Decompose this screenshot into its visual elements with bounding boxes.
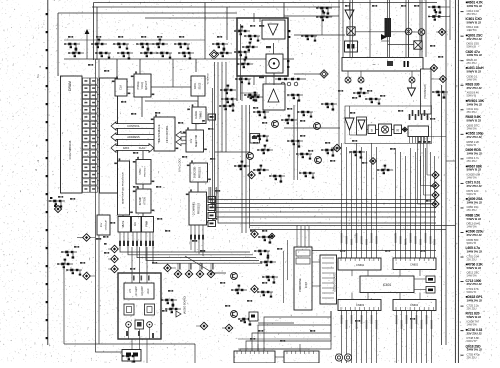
cluster below Q305 <box>231 285 247 295</box>
cluster mid extra 7 <box>287 94 303 102</box>
wires below bottom connectors with labels <box>341 311 432 364</box>
IC phase frequency detector <box>134 74 151 97</box>
mixer circle below clock box 3 <box>409 71 415 83</box>
pin box DO1 <box>208 197 216 203</box>
IC data slicer block <box>191 76 205 96</box>
connector diamond below DRAM <box>54 205 61 212</box>
RF amp outer frame <box>118 273 161 339</box>
wire module internal vertical <box>273 43 276 85</box>
bus channel box <box>100 78 118 193</box>
wire mid horizontal y152 <box>215 151 250 153</box>
connector diamond small <box>269 233 275 239</box>
transistor Q210 <box>247 153 254 160</box>
cluster left of module a <box>220 85 236 95</box>
mixer circle below clock box 2 <box>358 71 364 83</box>
pin labels below DAC blocks <box>119 232 154 246</box>
wires RF bottom pins <box>129 328 150 364</box>
RC filter cluster top row 5 <box>152 39 172 59</box>
pin box top right of clock block <box>208 114 216 120</box>
wire strip area vertical 2 <box>287 240 289 280</box>
connector diamond output row 1 <box>427 171 439 178</box>
cluster near Q301 b <box>281 115 297 125</box>
component chain below module <box>275 78 306 86</box>
PLL box R <box>394 125 402 134</box>
RC filter cluster top row 1 <box>64 43 84 58</box>
schematic right border line B <box>445 0 447 345</box>
wire x140 rail to PFD <box>139 59 141 74</box>
wire x196 rail to data slicer <box>195 59 197 72</box>
connector diamond output row 2 <box>421 182 440 189</box>
wire bottom center links <box>238 339 330 357</box>
mixer box X top left <box>347 27 355 35</box>
PLL small diamond <box>402 127 407 132</box>
cluster bottom far left 3 <box>66 269 82 276</box>
cluster below Q210 <box>234 161 250 171</box>
cluster mid 2 <box>296 153 312 160</box>
resistor cluster module 2 <box>244 35 260 42</box>
wire top y16 module to clock section <box>284 15 339 17</box>
resistor cluster module 4 <box>242 42 258 52</box>
connector diamond right of module <box>320 70 328 78</box>
connector diamond output row 4 <box>418 200 440 207</box>
ruler annotation text <box>34 65 41 171</box>
module left rail <box>240 24 242 100</box>
connector diamond BL1 <box>83 234 95 242</box>
small box bottom left of strip <box>249 312 258 321</box>
wire top rail y38 <box>64 39 205 41</box>
cluster below PLL 1 <box>349 151 365 159</box>
connector diamond RF topright <box>164 264 176 272</box>
cluster left of strip 2 <box>260 257 276 267</box>
pin labels below RF <box>126 331 154 338</box>
RC filter cluster top row 4 <box>136 43 156 58</box>
cluster left of strip 2c <box>262 276 278 284</box>
cluster mid extra 4 <box>269 175 285 183</box>
bus lines center to right <box>209 62 436 223</box>
bus arrow ADDRESS <box>111 133 154 141</box>
box bottom center 1 <box>234 351 275 363</box>
wire PFD bottom to clock timing <box>145 101 198 107</box>
wires Q channel pins down <box>191 239 203 256</box>
cluster left of module c <box>219 105 235 112</box>
pin box DO4 <box>208 221 216 227</box>
connector diamond CN top center <box>209 50 218 59</box>
vertical wires into clock section <box>339 0 426 57</box>
pin labels below PLL box <box>418 141 431 143</box>
wire J1 to IC <box>352 270 420 277</box>
wire rail drop x173 <box>172 59 174 87</box>
cluster left of module b <box>221 98 237 106</box>
IC CLA block <box>115 79 127 96</box>
wire top rail y59 <box>64 58 294 60</box>
IC adaptive flag processor <box>118 161 130 215</box>
pin labels above RF <box>133 276 150 281</box>
vertical label to servo <box>208 73 210 85</box>
mixer box X right <box>414 41 422 49</box>
wire top bus line 1 <box>94 2 438 4</box>
cluster mid extra 1 <box>253 135 269 142</box>
wire data slicer down <box>197 96 199 107</box>
bus arrow DATA FLAG <box>111 144 154 153</box>
mixer circle below clock box 1 <box>345 71 351 83</box>
IC sync protector <box>136 160 151 185</box>
label pair mute <box>103 236 108 245</box>
pin name labels above connectors <box>341 233 435 245</box>
cluster mid extra 5 <box>299 172 315 179</box>
IC clock timing block <box>192 107 206 124</box>
box bottom center 2 <box>284 351 319 363</box>
wire long vertical x99 <box>98 59 100 344</box>
wire mid vertical x294 <box>294 100 298 180</box>
transistor Q304 <box>315 157 322 164</box>
pin box DO3 <box>208 213 216 219</box>
cluster right border <box>432 91 448 99</box>
connector diamond mid center <box>248 171 256 179</box>
servo module frame <box>237 18 288 76</box>
PLL mixer circle in box <box>379 124 392 136</box>
cluster right of module row2 <box>316 12 332 22</box>
regulator box 1 <box>124 304 134 315</box>
parts list text column <box>461 1 485 360</box>
wire DRAM to bus stubs <box>97 80 99 188</box>
transistor Q306 <box>231 311 238 318</box>
wire diagonal to audio board <box>185 256 226 273</box>
connector diamond left bus 1 <box>251 230 259 238</box>
terminal circle RF 1 <box>126 322 132 328</box>
wire strip area vertical 1 <box>283 251 285 303</box>
display interface box right <box>421 69 432 114</box>
cluster right of RF 1 <box>161 299 177 307</box>
wire subcode to Q channel <box>197 182 199 192</box>
regulator small box mid <box>250 134 260 144</box>
wire left cluster links <box>62 238 83 253</box>
IC PLL output box <box>408 126 429 137</box>
resistor cluster module 5 <box>235 78 251 85</box>
connector diamond output row 3 <box>424 191 440 198</box>
IC servo driver strip <box>294 247 312 310</box>
IC CLV selector <box>186 130 204 152</box>
cluster top far right 2 <box>428 11 444 21</box>
module inner wire 2 <box>241 92 259 94</box>
staircase wires to connector J3 <box>240 311 331 351</box>
connector diamond top right border <box>436 28 446 35</box>
bus verticals to connector J2 <box>396 148 435 258</box>
cluster left of strip 1 <box>258 236 274 244</box>
cluster below PLL 2 <box>377 165 393 175</box>
wire bus vertical x226 <box>225 62 227 152</box>
small box right of IC 1 <box>426 276 435 283</box>
wire sync block verticals <box>123 151 143 217</box>
cluster near Q302 <box>297 111 313 118</box>
cluster near Q301 <box>253 111 269 119</box>
terminal circle RF 2 <box>147 322 153 328</box>
IC oscillator <box>97 215 110 235</box>
cluster top far right 1 <box>428 6 444 14</box>
transistor Q302 <box>314 123 321 130</box>
wire top bus line 4 <box>145 17 237 19</box>
wire PLL chain links <box>350 130 409 136</box>
inverter triangle top <box>345 3 354 19</box>
wire stub to right border 2 <box>444 16 450 18</box>
small box right of IC 2 <box>426 287 435 294</box>
wire bottom mid y323 <box>258 322 294 324</box>
IC DA interface <box>132 217 142 233</box>
connector diamond right border mid1 <box>431 75 447 82</box>
PLL opamp triangle 1 <box>345 106 354 130</box>
connector J4 bottom <box>393 300 436 311</box>
schematic right border line A <box>441 85 443 345</box>
diamond row below bus <box>174 263 215 278</box>
cluster right of module row1 <box>316 7 332 15</box>
IC subcode processor <box>190 163 208 182</box>
wire PFD down <box>141 97 143 117</box>
IC PWM output <box>142 217 154 233</box>
wire bus vertical x222 <box>221 62 223 152</box>
IC clock generator long box <box>342 58 423 72</box>
PLL output pins and labels <box>409 110 429 143</box>
connector diamond RF topleft 1 <box>108 255 118 263</box>
double circle terminal 2 <box>344 354 351 361</box>
cluster below clock box 2 <box>365 98 381 105</box>
op-amp U202 box <box>263 84 285 110</box>
left border ruler with ticks <box>46 0 48 345</box>
pin box DO2 <box>208 205 216 211</box>
wire bottom drop x195 <box>194 344 196 363</box>
wire long vertical x95 <box>96 59 123 352</box>
label blob module <box>259 46 271 78</box>
bus line upper y229 <box>250 229 446 231</box>
frame separator line 2 <box>457 0 459 363</box>
mixer box RF <box>135 320 144 329</box>
connector diamond audio out <box>196 322 208 330</box>
spindle motor box <box>266 54 283 73</box>
connector diamond BL3 <box>83 272 95 280</box>
wire vertical x284 module corner <box>283 3 285 19</box>
connector J3 bottom <box>338 300 381 311</box>
capacitor C209 <box>287 60 289 68</box>
wire bottom drop x64 <box>63 268 65 344</box>
cluster bottom left <box>122 355 138 363</box>
wire PFD to data slicer <box>151 86 191 88</box>
capacitor cluster below DRAM <box>48 197 56 207</box>
vertical label 8Fs clock <box>179 158 182 172</box>
inverter triangle mid right <box>408 83 416 96</box>
cluster bottom far left 2 <box>57 259 73 269</box>
RC filter cluster top row 3 <box>113 43 133 60</box>
wire stub to right border 1 <box>444 6 450 8</box>
connector diamond below PLL <box>370 158 377 165</box>
wire vertical drop x93 <box>93 3 95 61</box>
PLL area enclosure <box>345 106 432 144</box>
transistor right of RF <box>176 311 181 317</box>
connector diamond BL2 <box>108 245 118 253</box>
wires strip IC top pins <box>297 226 309 247</box>
cluster left of strip 2b <box>254 250 270 257</box>
RC filter cluster top row 2 <box>91 39 111 59</box>
wire right border segment x450 <box>449 0 451 40</box>
wire vertical drop x97 <box>96 7 98 60</box>
resistor cluster module 3 <box>234 51 250 59</box>
wire module frame extensions <box>237 76 266 101</box>
arrow up symbol above rail <box>85 29 90 59</box>
wire IC to small boxes <box>414 279 426 290</box>
connector diamond RF topleft 2 <box>108 265 118 273</box>
XTAL box <box>345 41 358 52</box>
cluster mid extra 3 <box>253 165 269 175</box>
transistor Q305 <box>231 273 238 280</box>
wire CLA to PFD <box>127 86 134 88</box>
wire mid horizontal y128 <box>284 127 340 129</box>
pin labels below Q channel block <box>190 225 204 240</box>
connector diamond right x434 y68 <box>430 64 437 71</box>
wires into RF top <box>132 247 147 283</box>
vertical label servo board <box>334 272 337 291</box>
connector box servo board <box>320 255 337 304</box>
vertical label audio board <box>184 296 187 315</box>
double circle terminal 1 <box>335 354 342 361</box>
wire strip to connector <box>312 262 320 286</box>
connector J2 top <box>393 258 436 270</box>
resistor cluster module 7 <box>237 59 253 69</box>
wires DAC pins staircase right <box>120 246 262 263</box>
cluster below clock box <box>353 88 369 98</box>
capacitor C208 <box>288 30 290 38</box>
resistor cluster module 6 <box>244 94 260 102</box>
op-amp U201 box <box>262 20 285 39</box>
wire IC to J3 <box>352 293 420 300</box>
cluster mid 1 <box>257 145 273 155</box>
cluster mid extra 2 <box>287 140 303 148</box>
IC Q channel processor <box>189 192 207 225</box>
wire top bus line 2 <box>92 6 340 8</box>
resistor cluster below DRAM <box>49 200 65 208</box>
cluster mid 3 <box>321 149 337 157</box>
cluster mid extra 6 <box>247 92 263 102</box>
connector diamond bottom mid <box>222 324 233 332</box>
wire cluster drop x322 <box>321 8 323 35</box>
bus crossing line y250 <box>294 250 436 252</box>
mixer circle X top right <box>418 29 425 36</box>
DRAM pin name column B <box>90 78 97 192</box>
RC filter cluster top row 7 <box>212 43 232 58</box>
mixer circle X <box>405 28 412 35</box>
wire module to right section <box>294 34 345 36</box>
small arrow pair CLV to FIFO <box>176 131 186 145</box>
bus arrow CONTROL <box>111 122 154 130</box>
cluster right of module mid <box>301 35 317 42</box>
PLL opamp triangle 2 <box>357 117 367 135</box>
cluster right of RF 2 <box>165 304 181 314</box>
wire vertical drop x205 <box>204 3 206 60</box>
wire x117 rail to CLA <box>116 59 118 79</box>
long vertical wire x339 <box>338 57 340 150</box>
DRAM pin number column A <box>83 78 90 192</box>
wire right border corner <box>429 137 455 162</box>
IC mute attenuator <box>118 217 131 233</box>
wires PLL box down <box>418 136 428 204</box>
connector J1 top <box>338 258 381 270</box>
value labels texture <box>58 5 443 342</box>
small box bottom left <box>122 350 141 362</box>
frame separator line 1 <box>454 0 456 363</box>
regulator box 2 <box>145 304 155 315</box>
IC main microcontroller <box>360 276 414 293</box>
wire mixer links top <box>355 32 422 58</box>
IC RAM interface / FIFO control <box>154 117 175 151</box>
pin number labels around central blocks <box>112 71 211 223</box>
IC RF amp inner <box>124 283 154 299</box>
bus verticals to connector J1 <box>342 143 377 258</box>
resistor cluster module 1 <box>234 26 250 36</box>
PLL box S <box>368 125 376 134</box>
connector diamond left of PLL <box>331 144 341 152</box>
wire bottom long y344 <box>64 343 195 345</box>
transistor Q301 <box>272 121 279 128</box>
wire module top entry <box>254 13 260 22</box>
connector diamond left bus 2 <box>251 285 259 293</box>
cluster left of strip 3 <box>257 291 273 298</box>
bus line upper y225 <box>250 225 455 227</box>
wire module right y74 <box>294 73 320 75</box>
RC filter cluster top row 6 <box>174 43 194 60</box>
cluster bottom far left 1 <box>61 251 77 259</box>
wire vertical drop x58 to DRAM <box>57 13 59 76</box>
wire clock timing down <box>195 124 197 131</box>
cluster near Q302 b <box>321 103 337 111</box>
IC DRAM <box>61 76 83 193</box>
wire top bus line 3 <box>58 12 237 14</box>
wire vertical drop x227 <box>226 7 228 40</box>
IC interpolator <box>136 189 151 213</box>
wire module left verticals <box>242 105 250 233</box>
crystal dark component <box>381 18 391 41</box>
cluster near Q306 <box>238 318 254 326</box>
